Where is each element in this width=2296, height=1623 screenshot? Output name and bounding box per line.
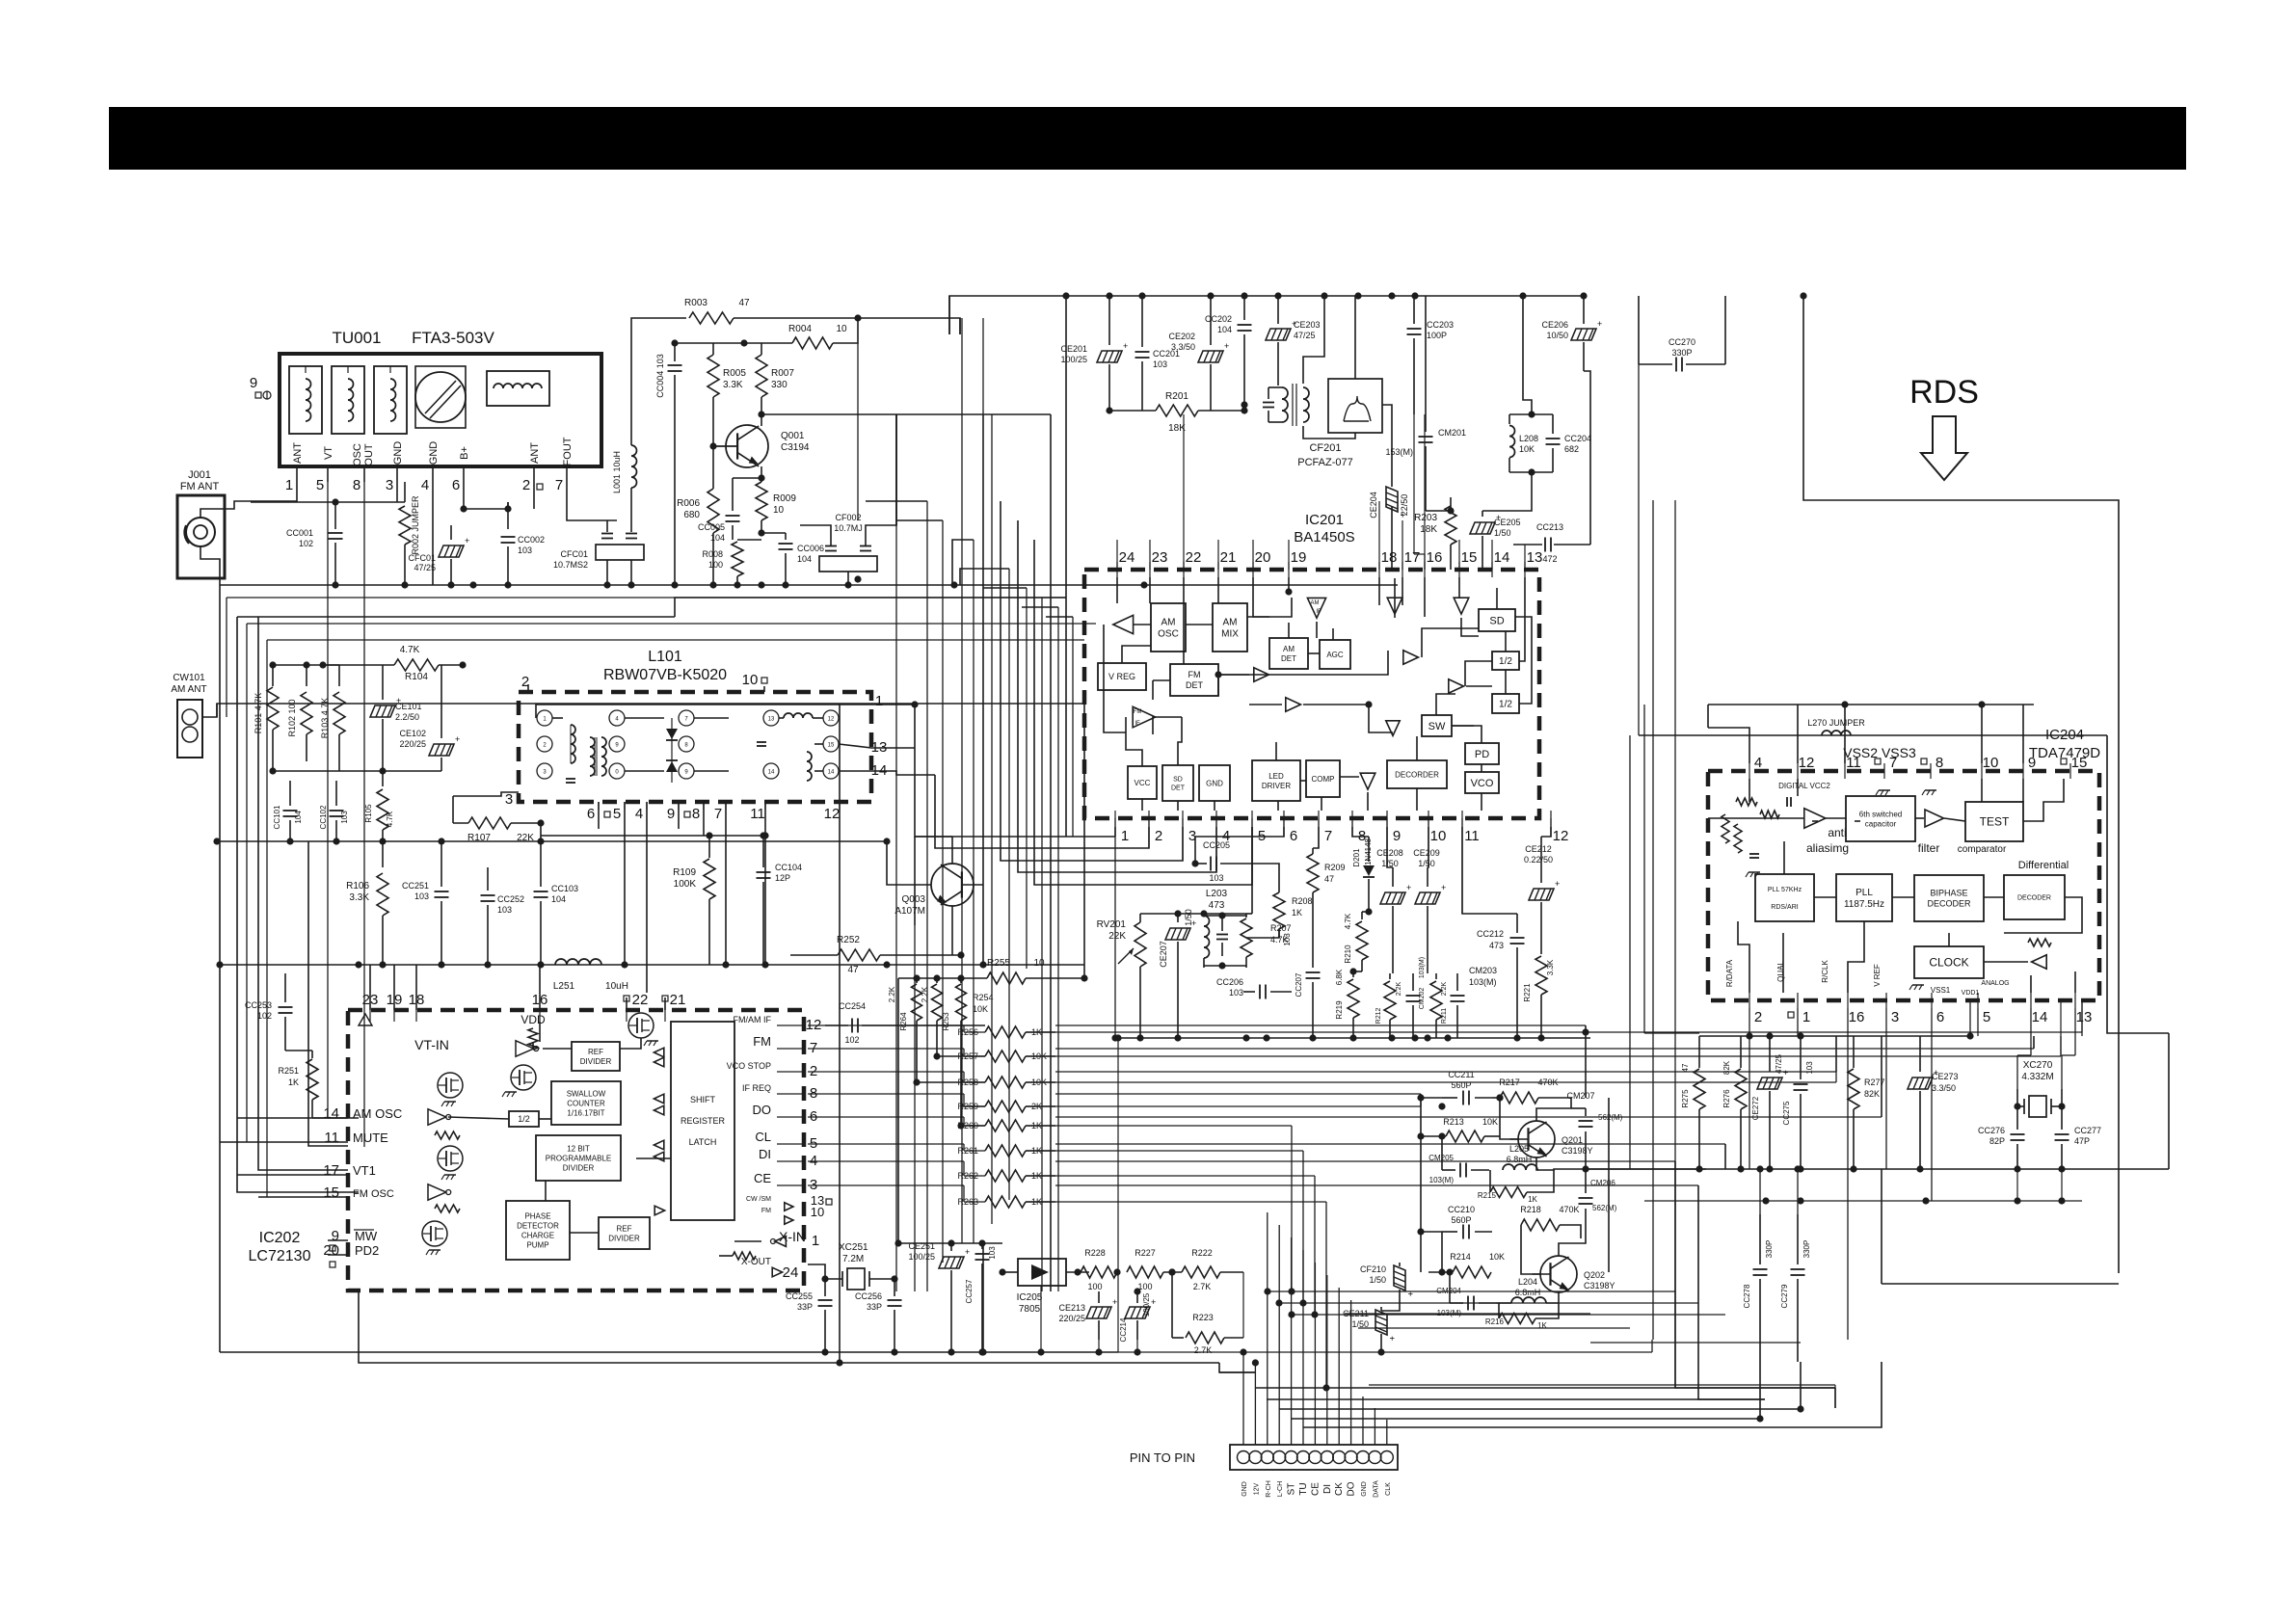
label PIN TO PIN <box>1130 1450 1195 1465</box>
L101 bottom pin 5 <box>613 802 625 822</box>
capacitor CE101 2.2/50 <box>370 665 422 771</box>
IC U204 TDA7479D outline <box>1708 771 2099 1000</box>
junction top bus <box>1388 292 1395 299</box>
L101 bottom pin 4 <box>635 802 647 822</box>
IC202 gnd d <box>502 1092 517 1097</box>
junction rvl <box>1200 910 1207 917</box>
IC201 mesh 8 <box>1332 628 1334 640</box>
tuner TU001 body <box>280 354 601 466</box>
junction cc257 <box>978 1239 985 1246</box>
bus h pin5 <box>1251 827 1253 885</box>
svg-text:473: 473 <box>1209 900 1225 911</box>
svg-text:20: 20 <box>323 1242 339 1259</box>
IC202 pin16 up <box>539 965 541 1010</box>
junction 932 <box>894 1239 901 1246</box>
IC201 mesh 19 <box>1519 577 1525 661</box>
IC204 block PLL <box>1836 874 1892 921</box>
L101 terminal 8 <box>679 736 694 752</box>
wire vt line <box>236 616 238 618</box>
arrow RDS <box>1921 416 1967 480</box>
IC201 wire am osc <box>1133 624 1151 625</box>
L101 terminal 13 <box>763 710 779 726</box>
IC202 block 12BIT DIVIDER <box>536 1135 621 1181</box>
resistor R256 1K <box>957 1026 1055 1038</box>
connector label DATA <box>1373 1480 1379 1498</box>
svg-text:ST: ST <box>1287 1483 1297 1496</box>
IC204 wire rdata <box>1738 921 1749 993</box>
IC201 wire fmdet out <box>1218 674 1249 676</box>
svg-text:OSC: OSC <box>1158 629 1179 640</box>
IC204 anti-alias tri <box>1804 809 1826 828</box>
svg-text:2: 2 <box>1155 828 1162 844</box>
IC201 wire sd <box>1496 588 1498 609</box>
IC201 wire 15 <box>1458 577 1460 598</box>
wire Q202 collector <box>1559 1243 1581 1256</box>
IC204 bottom pin 16 <box>1848 993 1864 1025</box>
svg-text:100/25: 100/25 <box>1142 1292 1151 1317</box>
label IC201 BA1450S <box>1294 512 1354 545</box>
IC204 block DIFF DECODER <box>2004 875 2065 919</box>
svg-text:10: 10 <box>1033 958 1045 969</box>
IC201 mesh 24 <box>1416 788 1418 811</box>
svg-text:R104: R104 <box>405 672 428 682</box>
junction mid rail <box>379 838 386 844</box>
L101 wire 12c <box>813 717 823 719</box>
svg-text:LC72130: LC72130 <box>249 1248 311 1264</box>
junction lad b <box>913 1078 920 1085</box>
svg-text:R275: R275 <box>1681 1089 1690 1108</box>
svg-text:10: 10 <box>773 505 785 516</box>
junction rail1246 <box>1797 1197 1803 1204</box>
svg-text:17: 17 <box>1404 549 1421 566</box>
transistor Q202 C3198Y <box>1533 1256 1615 1292</box>
junction left x220 <box>216 961 223 968</box>
wire R209 bottom to rail <box>1312 933 1314 954</box>
IC204 wire down to rds <box>1783 841 1785 874</box>
IC202 block REF DIVIDER <box>572 1042 620 1071</box>
resistor R102 100 <box>287 665 312 761</box>
svg-text:DI: DI <box>1322 1484 1333 1494</box>
svg-text:470K: 470K <box>1559 1205 1579 1214</box>
junction CE213 b <box>1095 1348 1102 1355</box>
IC201 bottom feeder <box>1215 818 1217 872</box>
inductor L251 10uH <box>553 959 628 992</box>
IC202 wire vdd <box>532 1042 534 1050</box>
bus vertical <box>926 501 928 1291</box>
IC201 top pin 16 <box>1425 549 1442 577</box>
IC201 buffer tri left <box>1113 615 1134 633</box>
svg-text:21: 21 <box>670 992 686 1008</box>
tuner pin label IFOUT <box>562 437 574 468</box>
svg-text:LED: LED <box>1268 772 1284 781</box>
capacitor CC005 104 <box>698 478 761 543</box>
left wire to VT <box>216 704 218 717</box>
connector pin 10 <box>1345 1451 1357 1464</box>
IC202 res a <box>435 1131 460 1139</box>
IC201 tri e <box>1286 698 1301 711</box>
svg-text:11: 11 <box>1846 755 1861 771</box>
IC202 right pin 1 X-IN <box>771 1229 820 1249</box>
svg-text:DO: DO <box>1347 1481 1357 1496</box>
capacitor CC002 103 <box>501 502 546 585</box>
stereo right bus <box>1608 1098 1610 1272</box>
svg-text:24: 24 <box>1119 549 1135 566</box>
capacitor CE209 1/50 <box>1413 848 1446 973</box>
junction D201 R210 <box>1365 908 1372 915</box>
svg-text:1/2: 1/2 <box>1499 700 1512 710</box>
resistor R109 100K <box>673 836 715 965</box>
capacitor CC252 103 <box>481 867 525 965</box>
IC202 pin17 wire <box>237 1174 348 1176</box>
svg-text:3.3K: 3.3K <box>1546 959 1555 975</box>
IC204 wire test out <box>2023 779 2064 821</box>
svg-text:+: + <box>1597 319 1602 329</box>
svg-text:PCFAZ-077: PCFAZ-077 <box>1297 457 1352 468</box>
IC204 out tri <box>2028 939 2051 969</box>
capacitor CM205 103(M) <box>1428 1154 1489 1184</box>
L101 pin 3 <box>505 791 513 808</box>
L101 bottom pin 11 <box>750 802 765 822</box>
L101 cap A <box>566 779 575 783</box>
wire R104 right <box>439 664 463 666</box>
junction rail1001 <box>761 961 768 968</box>
wire Q202 emitter <box>1546 1292 1559 1303</box>
junction R255 right <box>1081 974 1087 981</box>
capacitor CC207 103 <box>1283 933 1321 1038</box>
connector pin 3 <box>1261 1451 1273 1464</box>
IC204 feed 10 <box>1981 705 1983 763</box>
svg-text:102: 102 <box>257 1011 272 1021</box>
IC201 bottom pin 2 <box>1149 811 1162 844</box>
svg-text:CLK: CLK <box>1385 1482 1392 1496</box>
IC202 right pin 6 DO <box>753 1103 818 1125</box>
junction bus cross <box>1438 1103 1445 1109</box>
svg-text:VCC: VCC <box>1135 779 1151 787</box>
svg-text:+: + <box>1441 883 1446 892</box>
bottom rail 1414 <box>359 1290 1219 1363</box>
IC202 left pin 20 PD2 <box>323 1242 379 1267</box>
left bus x246 <box>237 617 359 1192</box>
svg-text:VSS1: VSS1 <box>1931 986 1951 995</box>
svg-text:CC214: CC214 <box>1119 1317 1128 1342</box>
connector label CE <box>1310 1482 1321 1496</box>
junction rail1403 b <box>891 1348 897 1355</box>
rail right 1213 <box>1586 1168 2169 1170</box>
IC202 pin15 wire <box>258 1196 348 1198</box>
rail right 1246 <box>1644 1200 2082 1202</box>
svg-text:33P: 33P <box>797 1302 813 1312</box>
IC204 label V REF <box>1873 964 1882 987</box>
svg-text:12V: 12V <box>1253 1482 1260 1495</box>
wire 1826 up <box>1759 1169 1761 1214</box>
junction r1213 <box>2014 1165 2020 1172</box>
mid low h1396 <box>829 1362 831 1364</box>
svg-text:102: 102 <box>299 539 313 548</box>
junction top bus <box>1354 292 1361 299</box>
svg-text:IC202: IC202 <box>259 1230 301 1246</box>
svg-text:7: 7 <box>555 477 563 493</box>
L101 terminal 14 <box>823 763 839 779</box>
resistor R009 10 <box>756 466 796 533</box>
resistor R104 4.7K <box>394 645 439 682</box>
junction riser tie <box>1288 1311 1295 1317</box>
svg-text:CC254: CC254 <box>839 1001 866 1011</box>
svg-text:+: + <box>1123 341 1128 351</box>
svg-text:22: 22 <box>1186 549 1202 566</box>
IC202 row wire <box>808 1094 985 1106</box>
wire Q003 c to bus <box>915 836 952 838</box>
wire CC203 down <box>1414 414 1425 570</box>
IC201 wire amdet-agc <box>1308 652 1320 654</box>
junction RDS feed top <box>1800 292 1806 299</box>
resistor R106 3.3K <box>346 841 388 965</box>
svg-text:GND: GND <box>1206 779 1223 787</box>
IC201 block VCO <box>1465 772 1499 793</box>
svg-text:100P: 100P <box>1427 331 1447 340</box>
junction R222 l <box>1168 1268 1175 1275</box>
tuner pin 2 stub <box>522 466 534 493</box>
svg-text:+: + <box>1112 1297 1117 1307</box>
svg-text:V REG: V REG <box>1108 672 1135 681</box>
IC201 AM IF tri <box>1307 598 1325 618</box>
IC204 label filter <box>1918 841 2007 855</box>
IC204 top pin 8 <box>1931 755 1943 779</box>
svg-text:FM: FM <box>1134 709 1142 715</box>
svg-text:CE273: CE273 <box>1932 1072 1959 1081</box>
svg-text:COUNTER: COUNTER <box>567 1099 605 1107</box>
connector J001 body <box>177 495 225 578</box>
IC204 wire tri-cap <box>1826 817 1846 819</box>
long wire into IC201 b <box>247 624 1096 1142</box>
wire connector riser <box>1278 1225 1280 1445</box>
svg-text:14: 14 <box>323 1105 339 1122</box>
capacitor CC102 103 <box>319 781 349 841</box>
resistor R257 10K <box>957 1051 1055 1062</box>
junction R004 left b <box>740 339 747 346</box>
svg-text:COMP: COMP <box>1312 775 1335 784</box>
IC201 top feeder <box>1402 520 1403 570</box>
svg-text:6: 6 <box>587 806 595 822</box>
junction R219 top <box>1349 968 1356 974</box>
wire CF210 wires <box>1381 1295 1400 1311</box>
svg-text:330P: 330P <box>1802 1240 1811 1259</box>
svg-text:aliasimg: aliasimg <box>1806 841 1849 855</box>
IC201 mesh 18 <box>1465 661 1492 686</box>
junction R264 top <box>913 974 920 981</box>
capacitor CC210 560P <box>1442 1205 1492 1239</box>
wire R252 left <box>790 954 838 956</box>
bus v2 <box>915 705 1115 837</box>
wire R251 down <box>312 1117 359 1119</box>
IC204 label R/CLK <box>1821 960 1829 983</box>
junction rail1246 <box>1922 1197 1929 1204</box>
IC201 top feeder <box>1424 414 1426 570</box>
L101 terminal 9 <box>609 736 625 752</box>
tuner pin label VT <box>323 446 334 460</box>
svg-text:J001: J001 <box>188 469 211 481</box>
IC202 block SHIFT REGISTER <box>671 1022 734 1220</box>
IC204 bottom pin 13 <box>2075 993 2092 1025</box>
junction rail1077 <box>1537 1034 1544 1041</box>
junction on ground rail <box>782 581 788 588</box>
IC201 mesh 23 <box>1367 792 1369 811</box>
IC201 bottom pin 6 <box>1284 811 1297 844</box>
IC201 block GND <box>1199 765 1230 801</box>
svg-text:+: + <box>965 1247 970 1257</box>
IC202 pin MW wire <box>327 1239 329 1241</box>
IC202 tri vt <box>359 1014 372 1025</box>
svg-text:153(M): 153(M) <box>1385 447 1413 457</box>
svg-text:6: 6 <box>1290 828 1297 844</box>
IC204 label DIGITAL VCC2 <box>1778 782 1830 790</box>
junction feed11 <box>1841 701 1848 707</box>
IC201 dot a <box>1215 671 1221 678</box>
svg-text:CF210: CF210 <box>1360 1264 1386 1274</box>
IC202 top pin 21 <box>662 992 685 1022</box>
svg-text:AM: AM <box>1161 618 1176 628</box>
svg-text:17: 17 <box>323 1162 339 1179</box>
svg-text:RDS/ARI: RDS/ARI <box>1771 904 1798 911</box>
IC201 tri d <box>1449 679 1464 693</box>
wire 1772 755 v <box>1707 705 1709 728</box>
connector CW101 AM ANT <box>171 673 206 758</box>
IC201 mesh 12 <box>1303 705 1393 732</box>
resistor R105 4.7K <box>364 771 394 841</box>
connector label DI <box>1322 1484 1333 1494</box>
wire 1865 up <box>1797 1169 1799 1214</box>
IC204 top pin 4 <box>1749 755 1762 779</box>
junction riser <box>1240 1348 1246 1355</box>
svg-text:DECORDER: DECORDER <box>1395 770 1439 779</box>
svg-text:47/25: 47/25 <box>1294 331 1316 340</box>
wire v1715 <box>1652 500 1654 1340</box>
diode D201 1N4148 <box>1352 837 1375 912</box>
junction r1213 <box>1737 1165 1744 1172</box>
junction riser tie <box>1275 1299 1282 1306</box>
wire Q201 collector <box>1536 1108 1571 1121</box>
svg-text:47: 47 <box>847 965 859 975</box>
IC202 wire sr-12bit <box>636 1157 671 1159</box>
svg-text:CE: CE <box>1310 1482 1321 1496</box>
IC201 bottom feeder <box>1283 818 1285 837</box>
svg-text:18K: 18K <box>1420 524 1437 535</box>
svg-text:6: 6 <box>452 477 460 493</box>
svg-text:R/DATA: R/DATA <box>1725 959 1734 987</box>
wire 1020 1290 <box>982 1243 984 1352</box>
resistor R107 22K <box>467 817 534 843</box>
L101 coil B <box>590 737 606 776</box>
svg-text:1/16.17BIT: 1/16.17BIT <box>567 1108 604 1117</box>
L101 bottom pin 12 <box>824 802 841 822</box>
capacitor CC204 682 <box>1546 414 1592 472</box>
svg-text:104: 104 <box>551 894 566 904</box>
svg-text:R006: R006 <box>677 498 700 509</box>
wire tank down <box>1482 472 1532 511</box>
svg-text:A107M: A107M <box>894 906 925 917</box>
junction rail1001 <box>722 961 729 968</box>
junction on ground rail <box>447 581 454 588</box>
svg-text:22: 22 <box>632 992 649 1008</box>
L101 terminal 1 <box>537 710 552 726</box>
svg-text:3.3/50: 3.3/50 <box>1171 342 1195 352</box>
IC204 pad1 <box>1788 1012 1794 1018</box>
IC201 wire sw-pd <box>1452 726 1482 743</box>
svg-text:4.332M: 4.332M <box>2021 1072 2053 1082</box>
IC204 gnd7 <box>1876 790 1890 795</box>
bus v1020 top <box>982 318 984 414</box>
wire Q201 emitter <box>1536 1157 1538 1170</box>
junction R253 top <box>933 974 940 981</box>
svg-text:VCO STOP: VCO STOP <box>727 1061 771 1071</box>
junction lt1 <box>269 661 276 668</box>
capacitor CC203 100P <box>1407 296 1455 414</box>
wire CM207 bus <box>1586 1168 1706 1170</box>
svg-text:3: 3 <box>1891 1009 1899 1025</box>
capacitor CE203 47/25 <box>1266 296 1321 386</box>
IC201 block V REG <box>1098 663 1146 690</box>
svg-text:GND: GND <box>1361 1481 1368 1497</box>
wire v1739 <box>1674 500 1676 1388</box>
svg-text:6.8mH: 6.8mH <box>1515 1288 1541 1297</box>
svg-text:MUTE: MUTE <box>353 1131 388 1145</box>
filter CF201 PCFAZ-077 <box>1263 379 1382 468</box>
wire CM207 top <box>1571 1107 1586 1109</box>
junction on ground rail <box>671 581 678 588</box>
IC202 top pin 22 <box>624 992 648 1022</box>
junction p2 1075 <box>1746 1032 1752 1039</box>
IC204 comparator tri <box>1925 810 1944 827</box>
svg-text:+: + <box>1405 1291 1415 1296</box>
svg-text:VDD1: VDD1 <box>1962 990 1980 997</box>
capacitor CE207 1/50 <box>1159 909 1196 1038</box>
IC202 left pin 9 MW <box>330 1228 378 1251</box>
svg-text:12: 12 <box>1799 755 1815 771</box>
svg-text:CE209: CE209 <box>1413 848 1440 858</box>
svg-text:DIGITAL VCC2: DIGITAL VCC2 <box>1778 782 1830 790</box>
junction r1213 <box>1766 1165 1773 1172</box>
bus vertical <box>1057 607 1059 1291</box>
svg-text:3: 3 <box>386 477 393 493</box>
L101 terminal 7 <box>679 710 694 726</box>
IC201 dot c <box>1365 701 1372 707</box>
label RDS <box>1909 374 1979 411</box>
wire IC204 p13 drop <box>2062 1008 2075 1089</box>
svg-text:FM: FM <box>753 1034 771 1049</box>
svg-text:10: 10 <box>836 324 847 334</box>
svg-text:DRIVER: DRIVER <box>1262 782 1291 790</box>
IC201 mesh 32 <box>1402 577 1403 605</box>
wire R218 base <box>1521 1225 1540 1274</box>
IC201 top feeder <box>1524 545 1526 570</box>
wire CC270 right down <box>1724 296 1726 364</box>
svg-text:OSC: OSC <box>352 443 363 466</box>
svg-text:102: 102 <box>844 1035 859 1045</box>
IC204 wire L270b <box>1855 820 1860 822</box>
IC204 bottom pin 6 <box>1932 993 1944 1025</box>
capacitor CE273 3.3/50 <box>1908 1036 1959 1169</box>
svg-text:CC006: CC006 <box>797 544 824 553</box>
IC201 block half1 <box>1492 652 1519 670</box>
tuner pin label GND <box>428 441 440 466</box>
IC202 inverter c <box>516 1041 539 1056</box>
IC202 wire half-swallow <box>539 1118 551 1120</box>
IC202 res xout <box>733 1252 756 1260</box>
svg-text:CM207: CM207 <box>1566 1091 1594 1101</box>
IC201 wire fmif out <box>1153 717 1182 734</box>
IC202 right pin 8 IF REQ <box>742 1083 817 1102</box>
svg-text:DET: DET <box>1171 785 1186 792</box>
svg-text:10K: 10K <box>1519 444 1535 454</box>
